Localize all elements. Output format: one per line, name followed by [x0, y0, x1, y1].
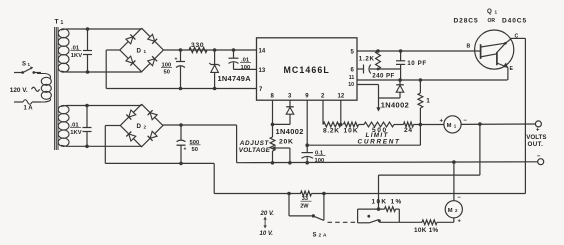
- wire pin2 vertical: [322, 100, 324, 124]
- wire raw plus down: [213, 163, 215, 193]
- capacitor 0.1/100: [302, 152, 314, 154]
- voltmeter M2: [445, 201, 462, 218]
- wire pin10 to 500 pot wiper: [357, 84, 379, 86]
- svg-text:2: 2: [319, 233, 322, 239]
- bridge rectifier D1 body: [120, 28, 164, 72]
- svg-text:50: 50: [192, 147, 198, 153]
- wire +out sense: [479, 124, 481, 175]
- transformer T1 primary winding: [37, 74, 51, 79]
- svg-text:−: −: [463, 118, 467, 124]
- svg-text:+: +: [184, 147, 187, 153]
- wire S2B right: [396, 208, 400, 210]
- node S2B top tap: [377, 207, 381, 211]
- potentiometer 500 (limit current): [364, 122, 394, 127]
- wire D2 minus rail: [163, 124, 237, 126]
- fuse 1A: [14, 101, 23, 103]
- node cap 100/50 top: [179, 48, 183, 52]
- svg-text:+: +: [536, 126, 540, 133]
- node zener top: [213, 48, 217, 52]
- resistor 10K 1% (lower): [422, 220, 437, 225]
- svg-text:VOLTS: VOLTS: [526, 134, 546, 141]
- switch S2A: [323, 194, 325, 221]
- wire S2A 20V contact stub: [288, 194, 290, 216]
- svg-text:20K: 20K: [279, 138, 294, 145]
- wire S2A-S2B mechanical link (dashed): [328, 221, 357, 223]
- wire current limit sense: [419, 125, 421, 146]
- node 1.2K top: [376, 49, 380, 53]
- wire M2 top to minus rail: [453, 162, 455, 201]
- svg-text:100: 100: [241, 65, 251, 71]
- switch S2B box left: [357, 209, 359, 223]
- svg-text:CURRENT: CURRENT: [358, 138, 401, 145]
- wire pin11 emitter rail: [357, 79, 508, 81]
- svg-text:1: 1: [495, 10, 498, 15]
- wire pin6 node: [378, 68, 401, 70]
- svg-text:240 PF: 240 PF: [372, 73, 394, 80]
- svg-text:E: E: [510, 66, 514, 72]
- node 1ohm bottom junction: [419, 123, 423, 127]
- bridge rectifier D2 body: [120, 104, 163, 147]
- svg-text:2: 2: [144, 125, 147, 130]
- svg-text:11: 11: [349, 75, 355, 81]
- node pin8/diode anode: [271, 123, 275, 127]
- svg-text:10: 10: [348, 82, 354, 88]
- svg-text:120 V.: 120 V.: [10, 87, 28, 94]
- zener diode 1N4749A: [214, 50, 216, 65]
- wire secondary1 bottom: [66, 71, 142, 73]
- diode 1N4002 (left): [289, 100, 291, 106]
- svg-text:1N4002: 1N4002: [381, 100, 409, 109]
- wire pin7 rail: [106, 88, 256, 90]
- capacitor 240 PF: [357, 68, 364, 70]
- potentiometer 20K wiper: [272, 146, 275, 150]
- wire 24 to M1: [414, 124, 444, 126]
- wire secondary2 top: [66, 105, 142, 107]
- resistor 330: [189, 47, 207, 52]
- wire 10K to 500: [359, 124, 365, 126]
- AC source symbol ~: [32, 87, 40, 91]
- node 10PF top: [399, 49, 403, 53]
- node 1N4002b cathode: [398, 78, 402, 82]
- wire pin12 vertical: [340, 100, 342, 124]
- transformer T1 core: [54, 27, 56, 150]
- label position arrow: [264, 219, 266, 227]
- terminal VOLTS OUT -: [538, 159, 544, 165]
- resistor 1.2K: [376, 51, 381, 69]
- svg-text:1: 1: [61, 20, 64, 26]
- node pin9/current-limit wire: [305, 143, 309, 147]
- resistor 8.2K: [323, 122, 341, 127]
- diode D2 top-left: [129, 110, 136, 117]
- node 500/50 bottom: [179, 162, 183, 166]
- node S2A left tap: [287, 192, 291, 196]
- svg-text:−: −: [537, 153, 541, 160]
- node pot20K bottom on minus rail: [271, 161, 275, 165]
- svg-text:D: D: [137, 123, 142, 130]
- node junction cap1 top: [86, 27, 90, 31]
- wire 500 to 24: [394, 124, 404, 126]
- wire pin5 rail to Q1 base: [357, 50, 481, 52]
- wire D2 plus to bottom-left rail: [105, 125, 120, 127]
- transformer T1 secondary winding 1: [61, 29, 66, 30]
- switch S2B unused contact: [367, 215, 370, 218]
- wire S2B top: [358, 208, 385, 210]
- svg-text:B: B: [467, 44, 471, 50]
- diode D2 bottom-left: [129, 134, 136, 141]
- node pin11/10PF: [399, 79, 402, 82]
- svg-text:10K 1%: 10K 1%: [372, 199, 403, 206]
- wire pin9 vertical: [306, 100, 308, 152]
- node output plus junction: [478, 122, 482, 126]
- svg-text:D40C5: D40C5: [502, 17, 527, 24]
- wire pin8 vertical: [272, 100, 274, 137]
- capacitor .01 1KV (upper): [87, 29, 89, 51]
- svg-text:24: 24: [404, 127, 413, 134]
- node wiper on minus rail: [288, 161, 292, 165]
- capacitor .01/100: [233, 50, 235, 58]
- svg-text:VOLTAGE: VOLTAGE: [239, 147, 271, 154]
- capacitor .01 1KV (lower): [86, 106, 88, 128]
- svg-text:+: +: [440, 118, 444, 124]
- svg-text:1.2K: 1.2K: [359, 55, 375, 62]
- svg-text:1 A: 1 A: [24, 106, 34, 112]
- diode D1 bottom-right: [148, 59, 155, 66]
- wire Q1 emitter: [507, 68, 509, 81]
- wire aux + rail: [163, 49, 256, 51]
- svg-text:S: S: [22, 62, 26, 68]
- svg-text:20 V.: 20 V.: [260, 211, 275, 217]
- svg-text:10K 1%: 10K 1%: [414, 227, 439, 234]
- node M2 wire on minus rail: [452, 160, 456, 164]
- svg-text:8.2K: 8.2K: [323, 127, 340, 134]
- wire M1 to terminal: [461, 123, 535, 125]
- svg-text:1: 1: [426, 97, 430, 104]
- svg-text:Q: Q: [487, 8, 492, 15]
- svg-text:1N4002: 1N4002: [276, 127, 304, 136]
- svg-text:12: 12: [338, 94, 345, 100]
- transformer T1 secondary winding 2: [61, 106, 66, 107]
- svg-text:MC1466L: MC1466L: [284, 65, 330, 75]
- svg-text:D: D: [137, 48, 142, 55]
- node junction cap1 bottom: [86, 70, 90, 74]
- node cap 0.1 on minus rail: [305, 161, 309, 165]
- svg-text:1KV: 1KV: [71, 53, 82, 59]
- resistor 1 (emitter sense): [419, 80, 421, 93]
- resistor 10K: [344, 122, 359, 127]
- svg-text:T: T: [55, 19, 59, 26]
- svg-text:M: M: [447, 123, 452, 129]
- svg-text:10K: 10K: [344, 127, 359, 134]
- diode D2 top-right: [150, 113, 157, 120]
- diode D1 bottom-left: [126, 56, 133, 63]
- svg-text:+: +: [175, 57, 178, 63]
- node S2A right tap: [322, 192, 326, 196]
- svg-text:1KV: 1KV: [70, 130, 81, 136]
- capacitor 100/50: [180, 50, 182, 62]
- node cap100/50 bottom on pin7: [179, 87, 183, 91]
- wire raw plus bottom run: [214, 193, 301, 195]
- svg-text:S: S: [313, 233, 317, 239]
- svg-text:13: 13: [259, 68, 266, 74]
- svg-text:1: 1: [144, 49, 147, 54]
- svg-text:OUT.: OUT.: [528, 141, 544, 148]
- terminal VOLTS OUT +: [535, 121, 541, 127]
- node cap2 top: [85, 104, 89, 108]
- transistor Q1 circle: [475, 30, 514, 69]
- svg-text:M: M: [448, 208, 453, 214]
- wire Q1 collector: [511, 37, 526, 39]
- node zener bottom on pin7: [213, 87, 217, 91]
- resistor 33 2W: [301, 191, 312, 196]
- node cap .01/100 top: [232, 48, 236, 52]
- svg-text:14: 14: [259, 48, 266, 54]
- svg-text:D28C5: D28C5: [454, 17, 479, 24]
- wire lower 10K to M2: [437, 221, 454, 223]
- switch S2B arm: [369, 220, 378, 223]
- node S2A contact: [312, 214, 315, 217]
- potentiometer 20K body: [270, 137, 275, 151]
- svg-text:1N4749A: 1N4749A: [218, 74, 252, 83]
- node cap2 bottom: [85, 145, 89, 149]
- node 500/50 top: [179, 123, 183, 127]
- capacitor 10 PF: [400, 51, 402, 61]
- svg-text:10 V.: 10 V.: [260, 231, 274, 237]
- node 1 ohm top: [419, 78, 423, 82]
- switch S1: [14, 72, 22, 74]
- wire secondary1 top: [66, 28, 142, 30]
- svg-text:330: 330: [191, 42, 204, 49]
- svg-text:10 PF: 10 PF: [407, 60, 427, 67]
- svg-text:100: 100: [315, 158, 325, 164]
- diode D2 bottom-right: [150, 131, 157, 138]
- node pin12/8.2K: [339, 123, 343, 127]
- svg-text:A: A: [323, 233, 327, 239]
- wire D1 negative to pin7 rail: [106, 49, 120, 51]
- ammeter M1: [444, 116, 461, 133]
- wire secondary2 bottom: [66, 145, 142, 147]
- diode D1 top-right: [148, 34, 155, 41]
- capacitor 500/50: [180, 125, 182, 140]
- diode 1N4002 (right): [399, 80, 401, 85]
- svg-text:OR: OR: [488, 18, 496, 24]
- transistor Q1 internals: [480, 44, 482, 59]
- svg-text:50: 50: [164, 70, 170, 76]
- resistor 10K 1% (upper): [385, 207, 396, 212]
- svg-text:2W: 2W: [300, 203, 309, 209]
- diode D1 top-left: [126, 37, 133, 44]
- op-amp regulator U1 MC1466L box: [257, 38, 358, 100]
- resistor 24: [404, 122, 414, 127]
